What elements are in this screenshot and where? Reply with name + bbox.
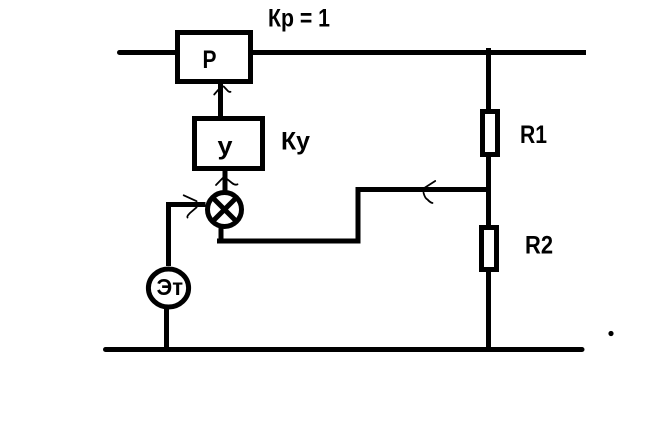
svg-text:R1: R1 xyxy=(520,121,547,149)
arrowhead into summing junction (hand-drawn) xyxy=(184,195,197,217)
wire: between R1 and R2 xyxy=(486,155,491,227)
stray dot xyxy=(608,331,613,336)
wire: top bus right segment xyxy=(251,50,586,55)
svg-text:у: у xyxy=(218,133,233,161)
wire: R2 to bottom bus xyxy=(486,269,491,349)
block U (amplifier) xyxy=(195,119,263,169)
resistor R1 xyxy=(483,112,498,155)
block P (regulator) xyxy=(178,33,251,82)
wire: P to U connector xyxy=(218,84,223,116)
resistor R2 xyxy=(482,228,497,270)
arrowhead into P (hand-drawn) xyxy=(214,86,230,94)
wire: top bus left segment xyxy=(120,50,179,55)
svg-text:Р: Р xyxy=(203,46,217,74)
arrowhead on feedback wire (hand-drawn, pointing left) xyxy=(424,181,436,203)
svg-text:Ку: Ку xyxy=(281,128,310,156)
wire: from Et up and into summing junction xyxy=(169,205,206,267)
arrowhead into U (hand-drawn) xyxy=(216,178,238,185)
wire: U to summing junction xyxy=(223,171,228,193)
wire: right branch top (bus to R1) xyxy=(486,48,491,111)
wire: Et to bottom bus xyxy=(164,308,169,349)
wire: feedback path from summing junction to divider tap xyxy=(217,190,491,242)
summing junction circle with X xyxy=(208,193,242,227)
reference source circle Et xyxy=(148,269,188,307)
wire: bottom bus xyxy=(106,347,583,352)
svg-text:Кр = 1: Кр = 1 xyxy=(268,5,330,33)
svg-text:R2: R2 xyxy=(525,232,553,260)
svg-text:Эт: Эт xyxy=(157,274,184,300)
